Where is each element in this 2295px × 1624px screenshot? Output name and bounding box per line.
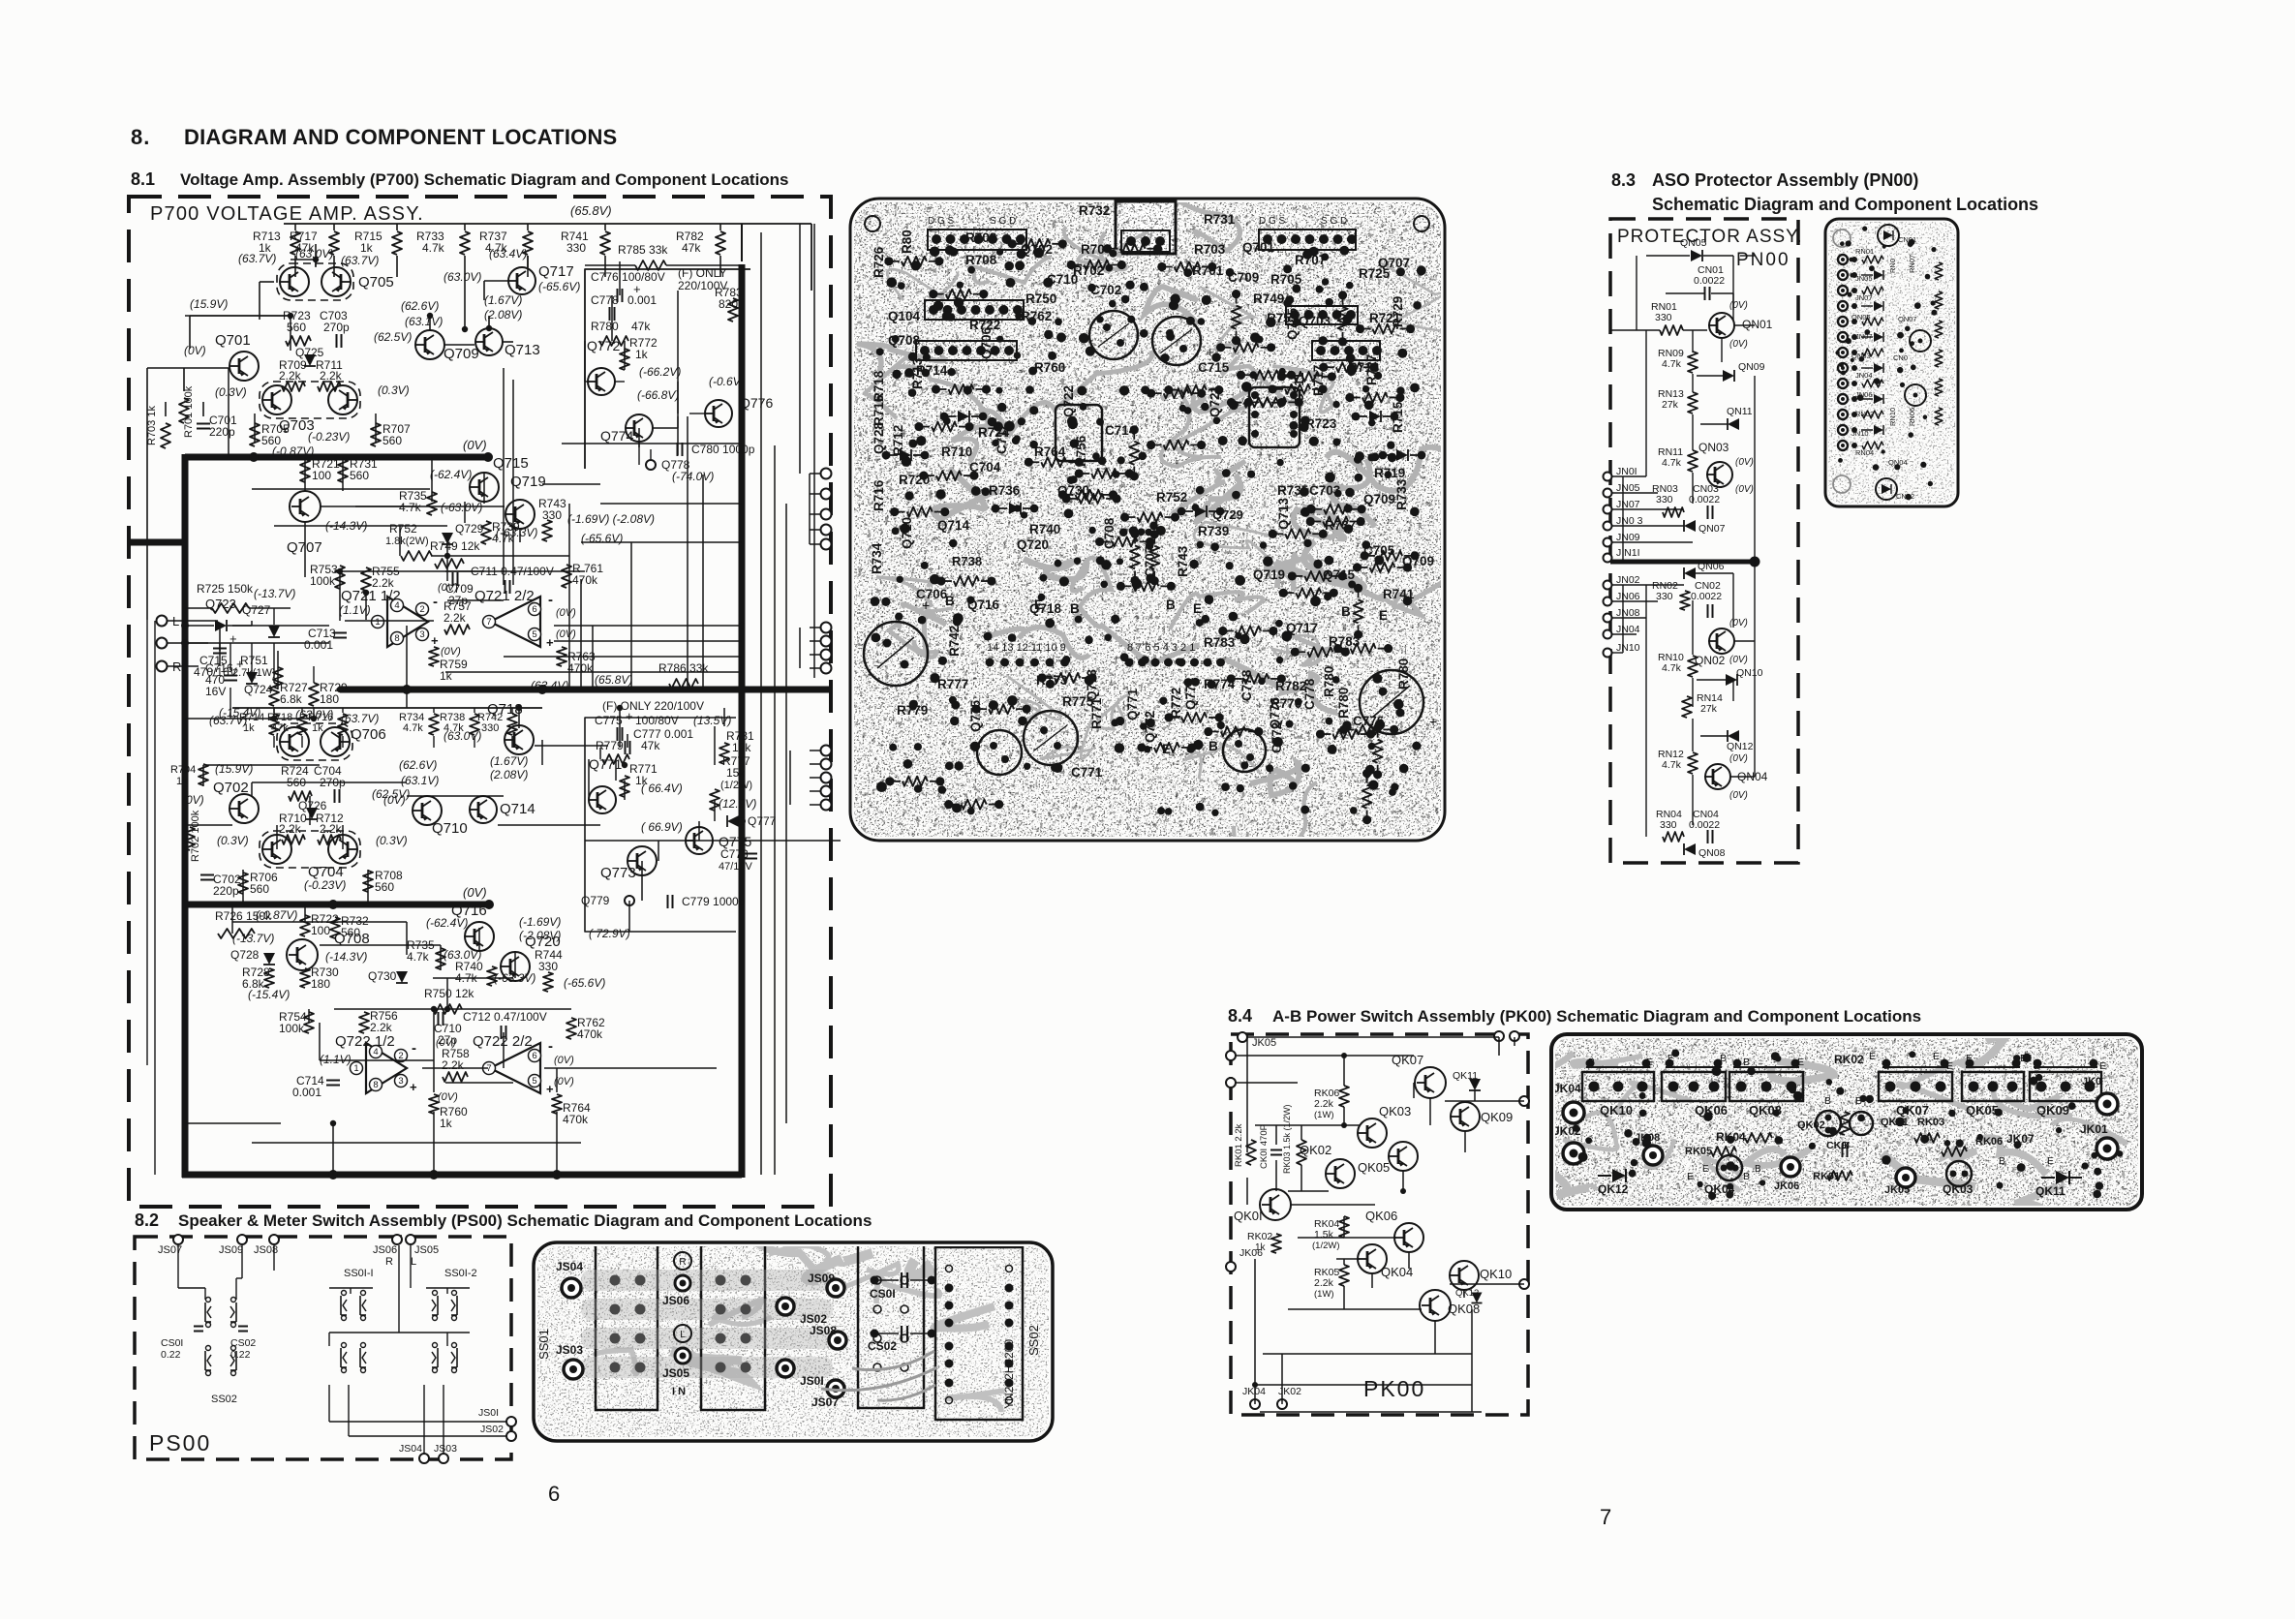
resistor RK06 pcb bbox=[1942, 1147, 1967, 1156]
ring pad JK08 bbox=[1643, 1146, 1663, 1165]
svg-text:R750 12k: R750 12k bbox=[424, 987, 474, 1000]
connector terminals right edge bbox=[821, 469, 832, 479]
svg-text:JS0I: JS0I bbox=[800, 1374, 824, 1388]
switch body 3 bbox=[858, 1242, 924, 1408]
svg-text:8.1: 8.1 bbox=[131, 169, 155, 189]
svg-text:0.001: 0.001 bbox=[292, 1086, 321, 1099]
svg-text:1k: 1k bbox=[440, 669, 453, 683]
svg-text:JK01: JK01 bbox=[2080, 1122, 2108, 1136]
svg-text:B: B bbox=[1070, 601, 1080, 616]
svg-text:C709: C709 bbox=[1228, 270, 1259, 285]
resistor R742 bbox=[511, 708, 513, 713]
svg-text:JN07: JN07 bbox=[1855, 293, 1873, 302]
PK00 PCB speckle bbox=[1551, 1034, 2142, 1210]
svg-text:R729: R729 bbox=[1391, 296, 1405, 327]
svg-text:JK0: JK0 bbox=[2082, 1076, 2101, 1088]
wire to JS01 bbox=[465, 1421, 506, 1423]
svg-text:C778: C778 bbox=[1239, 669, 1254, 701]
svg-text:(F) ONLY: (F) ONLY bbox=[678, 266, 726, 280]
svg-text:RK05: RK05 bbox=[1685, 1146, 1712, 1157]
connector strip right 2 bbox=[1286, 306, 1358, 324]
svg-text:Q720: Q720 bbox=[1017, 537, 1049, 552]
transistor QK03 pcb bbox=[1946, 1161, 1972, 1186]
svg-text:R723: R723 bbox=[1305, 416, 1337, 431]
svg-text:(15.9V): (15.9V) bbox=[190, 297, 228, 311]
wire bbox=[260, 281, 274, 283]
svg-text:Q721 2/2: Q721 2/2 bbox=[474, 588, 535, 604]
svg-text:B: B bbox=[2034, 1060, 2040, 1072]
svg-text:R713: R713 bbox=[1348, 360, 1380, 375]
svg-text:JN09: JN09 bbox=[1616, 532, 1640, 543]
svg-text:R742: R742 bbox=[947, 626, 962, 657]
svg-text:(0V): (0V) bbox=[436, 1037, 456, 1049]
svg-text:R720: R720 bbox=[899, 473, 930, 487]
wire bbox=[464, 277, 466, 329]
svg-text:QK11: QK11 bbox=[2035, 1184, 2065, 1198]
diode QN06 bbox=[1684, 567, 1696, 579]
svg-text:15k: 15k bbox=[726, 766, 746, 780]
svg-text:Q709: Q709 bbox=[1402, 554, 1434, 568]
svg-text:QK12: QK12 bbox=[1455, 1288, 1479, 1299]
junction dots bbox=[288, 313, 293, 319]
svg-text:E: E bbox=[1034, 598, 1043, 612]
svg-text:SS0I-I: SS0I-I bbox=[344, 1268, 374, 1279]
svg-text:QN03: QN03 bbox=[1698, 441, 1729, 454]
transistor Q773 bbox=[627, 846, 657, 875]
svg-text:CS02: CS02 bbox=[868, 1339, 897, 1353]
wire bbox=[328, 1333, 330, 1346]
svg-text:7: 7 bbox=[1600, 1505, 1611, 1529]
wire bbox=[229, 643, 231, 670]
resistor R783 bbox=[728, 298, 738, 322]
svg-text:R704: R704 bbox=[1081, 242, 1113, 257]
svg-text:330: 330 bbox=[1655, 312, 1672, 323]
svg-text:S G D: S G D bbox=[1321, 216, 1347, 227]
svg-text:JN0 3: JN0 3 bbox=[1616, 515, 1643, 527]
svg-text:12k: 12k bbox=[732, 741, 751, 754]
resistor R721 bbox=[300, 459, 310, 482]
svg-text:(63.1V): (63.1V) bbox=[405, 315, 443, 328]
svg-text:R701: R701 bbox=[1192, 263, 1224, 278]
svg-text:Q773: Q773 bbox=[1085, 668, 1099, 701]
svg-text:560: 560 bbox=[287, 321, 306, 334]
svg-text:3: 3 bbox=[419, 629, 424, 640]
transistor QK01 bbox=[1260, 1189, 1291, 1220]
switch body 2 bbox=[701, 1242, 765, 1410]
svg-text:(-63.0V): (-63.0V) bbox=[441, 501, 482, 514]
transistor QK02 bbox=[1326, 1159, 1355, 1188]
pin 6 bbox=[529, 603, 541, 616]
resistor R706 bbox=[238, 873, 248, 894]
svg-text:CK0I 470P: CK0I 470P bbox=[1259, 1124, 1270, 1169]
ring pad JK06 bbox=[1781, 1157, 1800, 1177]
resistor R741 bbox=[604, 224, 606, 230]
svg-text:Q722 1/2: Q722 1/2 bbox=[335, 1033, 395, 1050]
PCB top connector tab bbox=[1116, 201, 1176, 254]
terminal right low bbox=[1519, 1279, 1529, 1289]
diode QN12 bbox=[1728, 730, 1739, 742]
pin 4 bbox=[391, 599, 404, 612]
svg-text:R783: R783 bbox=[1204, 635, 1236, 650]
wire mesh horizontals bbox=[291, 259, 316, 260]
svg-text:Q723: Q723 bbox=[205, 597, 236, 611]
svg-text:R712: R712 bbox=[891, 425, 905, 456]
svg-text:R733: R733 bbox=[1394, 478, 1409, 510]
svg-text:JS07: JS07 bbox=[811, 1395, 839, 1409]
svg-text:Q717: Q717 bbox=[538, 263, 574, 280]
IC pads Q721 bbox=[1249, 387, 1300, 447]
svg-text:470k: 470k bbox=[572, 573, 598, 587]
svg-text:R749 12k: R749 12k bbox=[430, 539, 480, 553]
diode QK11 bbox=[1469, 1079, 1481, 1090]
svg-text:(63.4V): (63.4V) bbox=[489, 247, 527, 260]
svg-text:R786 33k: R786 33k bbox=[658, 661, 709, 675]
svg-text:Q716: Q716 bbox=[967, 598, 1000, 612]
terminals JN01-JN11 bbox=[1604, 473, 1612, 481]
svg-text:8 7 6 5 4 3 2 1: 8 7 6 5 4 3 2 1 bbox=[1127, 642, 1195, 654]
svg-text:-: - bbox=[548, 1038, 553, 1055]
svg-text:JK06: JK06 bbox=[1239, 1247, 1263, 1259]
pin 3 bbox=[395, 1075, 408, 1088]
svg-text:Q715: Q715 bbox=[1323, 567, 1356, 582]
svg-text:QN05: QN05 bbox=[1851, 313, 1871, 322]
wire bbox=[585, 381, 588, 383]
electrolytic cap C772 bbox=[1223, 729, 1266, 772]
svg-text:6: 6 bbox=[548, 1482, 560, 1506]
pin 5 bbox=[529, 628, 541, 641]
switch SS01 terminals bbox=[392, 1235, 402, 1244]
svg-text:R752: R752 bbox=[1156, 490, 1187, 505]
svg-text:R713: R713 bbox=[910, 357, 925, 389]
bus mid 65.8V bbox=[340, 687, 830, 693]
svg-text:P700 VOLTAGE AMP. ASSY.: P700 VOLTAGE AMP. ASSY. bbox=[150, 203, 424, 225]
transistor Q707 bbox=[290, 491, 321, 522]
pin 7 bbox=[483, 1062, 496, 1075]
svg-text:C714: C714 bbox=[1105, 423, 1137, 438]
transistor Q716 bbox=[465, 922, 494, 951]
svg-text:QN12: QN12 bbox=[1727, 741, 1754, 752]
diode QK11 bbox=[2056, 1171, 2069, 1184]
svg-text:+: + bbox=[410, 1080, 417, 1094]
svg-text:Q104: Q104 bbox=[888, 309, 921, 323]
diode Q730 bbox=[396, 971, 408, 983]
pin 8 bbox=[391, 632, 404, 645]
svg-text:D G S: D G S bbox=[1259, 216, 1286, 227]
pin 6 bbox=[529, 1050, 541, 1062]
svg-text:(0V): (0V) bbox=[1729, 753, 1748, 764]
svg-text:R718: R718 bbox=[872, 370, 886, 402]
svg-text:C780 1000p: C780 1000p bbox=[691, 443, 755, 456]
resistor R704 bbox=[199, 764, 208, 785]
svg-text:B: B bbox=[1999, 1155, 2005, 1167]
PN00 PCB speckle bbox=[1825, 219, 1958, 506]
svg-text:C771: C771 bbox=[1071, 765, 1103, 780]
wire bbox=[190, 315, 291, 317]
svg-text:R750: R750 bbox=[1025, 291, 1056, 306]
svg-text:CS0I: CS0I bbox=[870, 1287, 896, 1301]
svg-text:JN06: JN06 bbox=[1616, 591, 1640, 602]
resistor R761 bbox=[562, 565, 571, 588]
svg-text:R725 150k: R725 150k bbox=[197, 582, 254, 596]
sub-circuit box bbox=[585, 269, 750, 469]
diode QN09 bbox=[1723, 370, 1734, 382]
svg-text:E: E bbox=[1646, 1057, 1653, 1068]
resistor RK01 pcb bbox=[1827, 1171, 1852, 1180]
svg-text:QK05: QK05 bbox=[1358, 1160, 1390, 1175]
svg-text:QK12: QK12 bbox=[1598, 1182, 1629, 1196]
svg-text:(-15.4V): (-15.4V) bbox=[248, 988, 290, 1001]
svg-text:JS06: JS06 bbox=[662, 1294, 689, 1307]
svg-text:Q702: Q702 bbox=[1021, 242, 1053, 257]
pad JS07 bbox=[827, 1380, 844, 1397]
svg-text:C715: C715 bbox=[1198, 360, 1230, 375]
PK00 wires bbox=[1247, 1036, 1499, 1038]
electrolytic cap C706 bbox=[864, 622, 928, 686]
PK00 PCB pads bbox=[1809, 1143, 1816, 1149]
svg-text:0.0022: 0.0022 bbox=[1694, 275, 1725, 287]
svg-text:B: B bbox=[945, 594, 955, 608]
transistor Q720 bbox=[501, 952, 530, 981]
svg-text:RK03 1.5k (1/2W): RK03 1.5k (1/2W) bbox=[1282, 1104, 1292, 1174]
svg-text:RN0: RN0 bbox=[1888, 259, 1897, 273]
svg-text:Q774: Q774 bbox=[1183, 677, 1198, 710]
svg-text:R751: R751 bbox=[240, 654, 268, 667]
svg-text:(-66.8V): (-66.8V) bbox=[637, 388, 679, 402]
svg-text:(1.1V): (1.1V) bbox=[320, 1053, 352, 1066]
svg-text:DIAGRAM AND COMPONENT LOCAT: DIAGRAM AND COMPONENT LOCATIONS bbox=[184, 125, 617, 149]
svg-text:RK02: RK02 bbox=[1834, 1053, 1864, 1066]
transistor QK06 bbox=[1394, 1223, 1423, 1252]
svg-text:R731: R731 bbox=[1204, 212, 1236, 227]
diode QK12 bbox=[1612, 1169, 1626, 1182]
capacitor C702 bbox=[200, 874, 214, 876]
transistor QN02 bbox=[1709, 628, 1734, 654]
0V bus upper bbox=[185, 454, 488, 461]
svg-text:100k: 100k bbox=[310, 574, 336, 588]
svg-text:(0V): (0V) bbox=[441, 646, 461, 658]
svg-text:(62.6V): (62.6V) bbox=[401, 299, 439, 313]
svg-text:R707: R707 bbox=[1295, 253, 1326, 267]
resistor R759 bbox=[429, 647, 439, 666]
svg-text:(-62.4V): (-62.4V) bbox=[430, 468, 472, 481]
svg-text:100: 100 bbox=[312, 469, 331, 482]
svg-text:C707: C707 bbox=[1143, 546, 1157, 577]
capacitor C780 bbox=[677, 443, 679, 456]
svg-text:Q714: Q714 bbox=[937, 518, 970, 533]
svg-text:180: 180 bbox=[320, 692, 339, 706]
svg-text:A-B Power Switch Assembly (PK0: A-B Power Switch Assembly (PK00) Schemat… bbox=[1272, 1007, 1921, 1026]
ring pad JK03 bbox=[2096, 1093, 2118, 1115]
wire bbox=[444, 344, 474, 346]
svg-text:100: 100 bbox=[311, 924, 330, 937]
svg-text:SS0I-2: SS0I-2 bbox=[444, 1268, 477, 1279]
svg-text:(0V): (0V) bbox=[1729, 300, 1748, 311]
PS00 PCB speckle bbox=[534, 1242, 1053, 1441]
resistor R703 bbox=[161, 423, 170, 448]
pin 8 bbox=[370, 1079, 382, 1091]
svg-text:C704: C704 bbox=[969, 460, 1001, 475]
svg-text:5: 5 bbox=[532, 629, 536, 640]
svg-text:E: E bbox=[1946, 1060, 1953, 1072]
wire bbox=[527, 256, 529, 267]
svg-text:( 66.9V): ( 66.9V) bbox=[641, 820, 683, 834]
transistor Q718 bbox=[505, 725, 534, 754]
svg-text:J N1I: J N1I bbox=[1616, 547, 1640, 559]
diode QK12 bbox=[1472, 1293, 1483, 1303]
svg-text:Schematic Diagram and Componen: Schematic Diagram and Component Location… bbox=[1652, 195, 2038, 214]
svg-text:R780: R780 bbox=[1322, 666, 1336, 697]
svg-text:QK09: QK09 bbox=[1481, 1110, 1513, 1124]
svg-text:JS05: JS05 bbox=[662, 1366, 689, 1380]
bus stub from border bbox=[129, 539, 185, 546]
svg-text:C778: C778 bbox=[591, 293, 619, 307]
svg-text:JK05: JK05 bbox=[1252, 1037, 1276, 1049]
connector strip right 3 bbox=[1312, 341, 1380, 360]
svg-text:R736: R736 bbox=[989, 483, 1021, 498]
resistor R714 bbox=[273, 708, 275, 713]
svg-text:R752: R752 bbox=[389, 522, 417, 536]
transistor pair Q703 bbox=[260, 382, 360, 418]
svg-text:RN10: RN10 bbox=[1888, 408, 1897, 426]
transistor Q710 bbox=[413, 796, 442, 825]
svg-text:(1/2W): (1/2W) bbox=[1312, 1241, 1340, 1251]
transistor Q708 bbox=[287, 939, 318, 970]
svg-text:(0V): (0V) bbox=[554, 1055, 574, 1066]
lower rail bbox=[232, 707, 542, 709]
terminal JS08 bbox=[269, 1235, 279, 1244]
ring pad JK01 bbox=[2096, 1138, 2118, 1159]
svg-text:QN09: QN09 bbox=[1738, 361, 1765, 373]
svg-text:QN10: QN10 bbox=[1736, 667, 1763, 679]
svg-text:RK03: RK03 bbox=[1917, 1117, 1944, 1128]
svg-text:(-13.7V): (-13.7V) bbox=[254, 587, 295, 600]
PCB diodes bbox=[992, 505, 1000, 513]
IC pads Q722 bbox=[1056, 405, 1102, 461]
svg-text:QK03: QK03 bbox=[1379, 1104, 1411, 1118]
wire bbox=[165, 402, 167, 416]
resistor R713 bbox=[294, 224, 296, 230]
svg-text:C710: C710 bbox=[1047, 272, 1078, 287]
svg-text:R779: R779 bbox=[897, 703, 928, 718]
ring pad JK02 bbox=[1563, 1143, 1584, 1164]
terminal JK05 bbox=[1238, 1032, 1247, 1042]
svg-text:(-0.87V): (-0.87V) bbox=[256, 908, 297, 922]
svg-text:R780: R780 bbox=[1336, 688, 1351, 719]
svg-text:1: 1 bbox=[375, 617, 380, 628]
svg-text:E: E bbox=[1379, 608, 1388, 623]
svg-text:C705: C705 bbox=[1363, 543, 1395, 558]
svg-text:Q713: Q713 bbox=[505, 342, 540, 358]
svg-text:CN0: CN0 bbox=[1893, 353, 1908, 362]
svg-text:14 13 12 11 10 9: 14 13 12 11 10 9 bbox=[987, 642, 1066, 654]
transistor Q714 bbox=[470, 796, 497, 823]
svg-text:+: + bbox=[626, 709, 633, 723]
svg-text:JN05: JN05 bbox=[1616, 482, 1640, 494]
svg-text:8.4: 8.4 bbox=[1228, 1006, 1252, 1026]
svg-text:7: 7 bbox=[486, 617, 491, 628]
transistor pair Q704 bbox=[260, 831, 360, 868]
wire bbox=[177, 1245, 179, 1288]
svg-text:CS0I: CS0I bbox=[161, 1337, 183, 1349]
transistor Q775 bbox=[686, 827, 713, 854]
svg-text:Q722 2/2: Q722 2/2 bbox=[473, 1033, 533, 1050]
svg-text:R783: R783 bbox=[1329, 634, 1361, 649]
svg-text:JN10: JN10 bbox=[1851, 429, 1869, 438]
svg-text:220p: 220p bbox=[209, 425, 235, 439]
svg-text:B: B bbox=[1720, 1053, 1727, 1064]
input terminal R bbox=[157, 661, 168, 672]
svg-text:Q708: Q708 bbox=[888, 333, 921, 348]
resistor R732 bbox=[330, 917, 340, 938]
resistor R705 bbox=[250, 423, 260, 446]
svg-text:(65.8V): (65.8V) bbox=[595, 673, 632, 687]
svg-text:SS01: SS01 bbox=[536, 1329, 551, 1360]
svg-text:Q701: Q701 bbox=[1242, 240, 1275, 255]
svg-text:C708: C708 bbox=[1102, 517, 1117, 549]
switch body 1 bbox=[596, 1242, 658, 1410]
svg-text:QK08: QK08 bbox=[1448, 1302, 1480, 1316]
svg-text:R780: R780 bbox=[591, 320, 619, 333]
pin 4 bbox=[370, 1046, 382, 1058]
svg-text:Q707: Q707 bbox=[1378, 256, 1410, 270]
svg-text:(-65.6V): (-65.6V) bbox=[538, 280, 580, 293]
svg-text:Q728: Q728 bbox=[230, 948, 260, 962]
svg-text:JS04: JS04 bbox=[399, 1443, 422, 1455]
svg-text:470k: 470k bbox=[563, 1113, 589, 1126]
svg-text:Q722: Q722 bbox=[1061, 385, 1076, 417]
svg-text:E: E bbox=[1869, 1051, 1876, 1062]
svg-text:2.2k: 2.2k bbox=[320, 822, 343, 836]
svg-text:QK0I: QK0I bbox=[1234, 1209, 1263, 1223]
terminal right mid bbox=[1519, 1096, 1529, 1106]
PN00 PCB outline bbox=[1825, 219, 1958, 506]
resistor R707 bbox=[371, 423, 381, 446]
PN00 dashed border bbox=[1610, 219, 1798, 863]
svg-text:(63.4V): (63.4V) bbox=[531, 679, 568, 692]
svg-text:8.3: 8.3 bbox=[1611, 170, 1636, 190]
svg-text:Q776: Q776 bbox=[1268, 696, 1282, 729]
switch SS01 contacts bbox=[340, 1296, 342, 1315]
svg-text:C702: C702 bbox=[1090, 283, 1121, 297]
svg-text:(0V): (0V) bbox=[556, 607, 576, 619]
svg-text:JS03: JS03 bbox=[556, 1343, 583, 1357]
svg-text:QN05: QN05 bbox=[1680, 237, 1707, 249]
svg-text:R764: R764 bbox=[1034, 444, 1066, 459]
svg-text:330: 330 bbox=[1656, 591, 1673, 602]
svg-text:PN00: PN00 bbox=[1736, 250, 1790, 270]
svg-text:4: 4 bbox=[373, 1047, 378, 1057]
svg-text:R701 100k: R701 100k bbox=[183, 385, 195, 438]
diode QN07 bbox=[1684, 520, 1696, 532]
svg-text:(12.9V): (12.9V) bbox=[719, 797, 756, 811]
pad JS09 bbox=[827, 1279, 844, 1297]
svg-text:QK06: QK06 bbox=[1365, 1209, 1397, 1223]
PCB screw hole left bbox=[865, 216, 880, 231]
svg-text:(63.1V): (63.1V) bbox=[401, 774, 439, 787]
svg-text:Q730: Q730 bbox=[368, 969, 397, 983]
svg-text:4.7k: 4.7k bbox=[403, 722, 423, 734]
PCB trace scribbles bbox=[1163, 191, 1240, 251]
svg-text:R719: R719 bbox=[1374, 466, 1405, 480]
svg-text:RK01: RK01 bbox=[1813, 1171, 1840, 1182]
resistor R738 bbox=[474, 708, 475, 713]
resistor R734 bbox=[433, 708, 435, 713]
svg-text:8.: 8. bbox=[131, 125, 150, 149]
svg-text:47k: 47k bbox=[641, 739, 660, 752]
transistor QK02 pcb bbox=[1816, 1111, 1841, 1136]
switch body pads bbox=[610, 1275, 621, 1286]
svg-text:JS05: JS05 bbox=[414, 1244, 439, 1256]
